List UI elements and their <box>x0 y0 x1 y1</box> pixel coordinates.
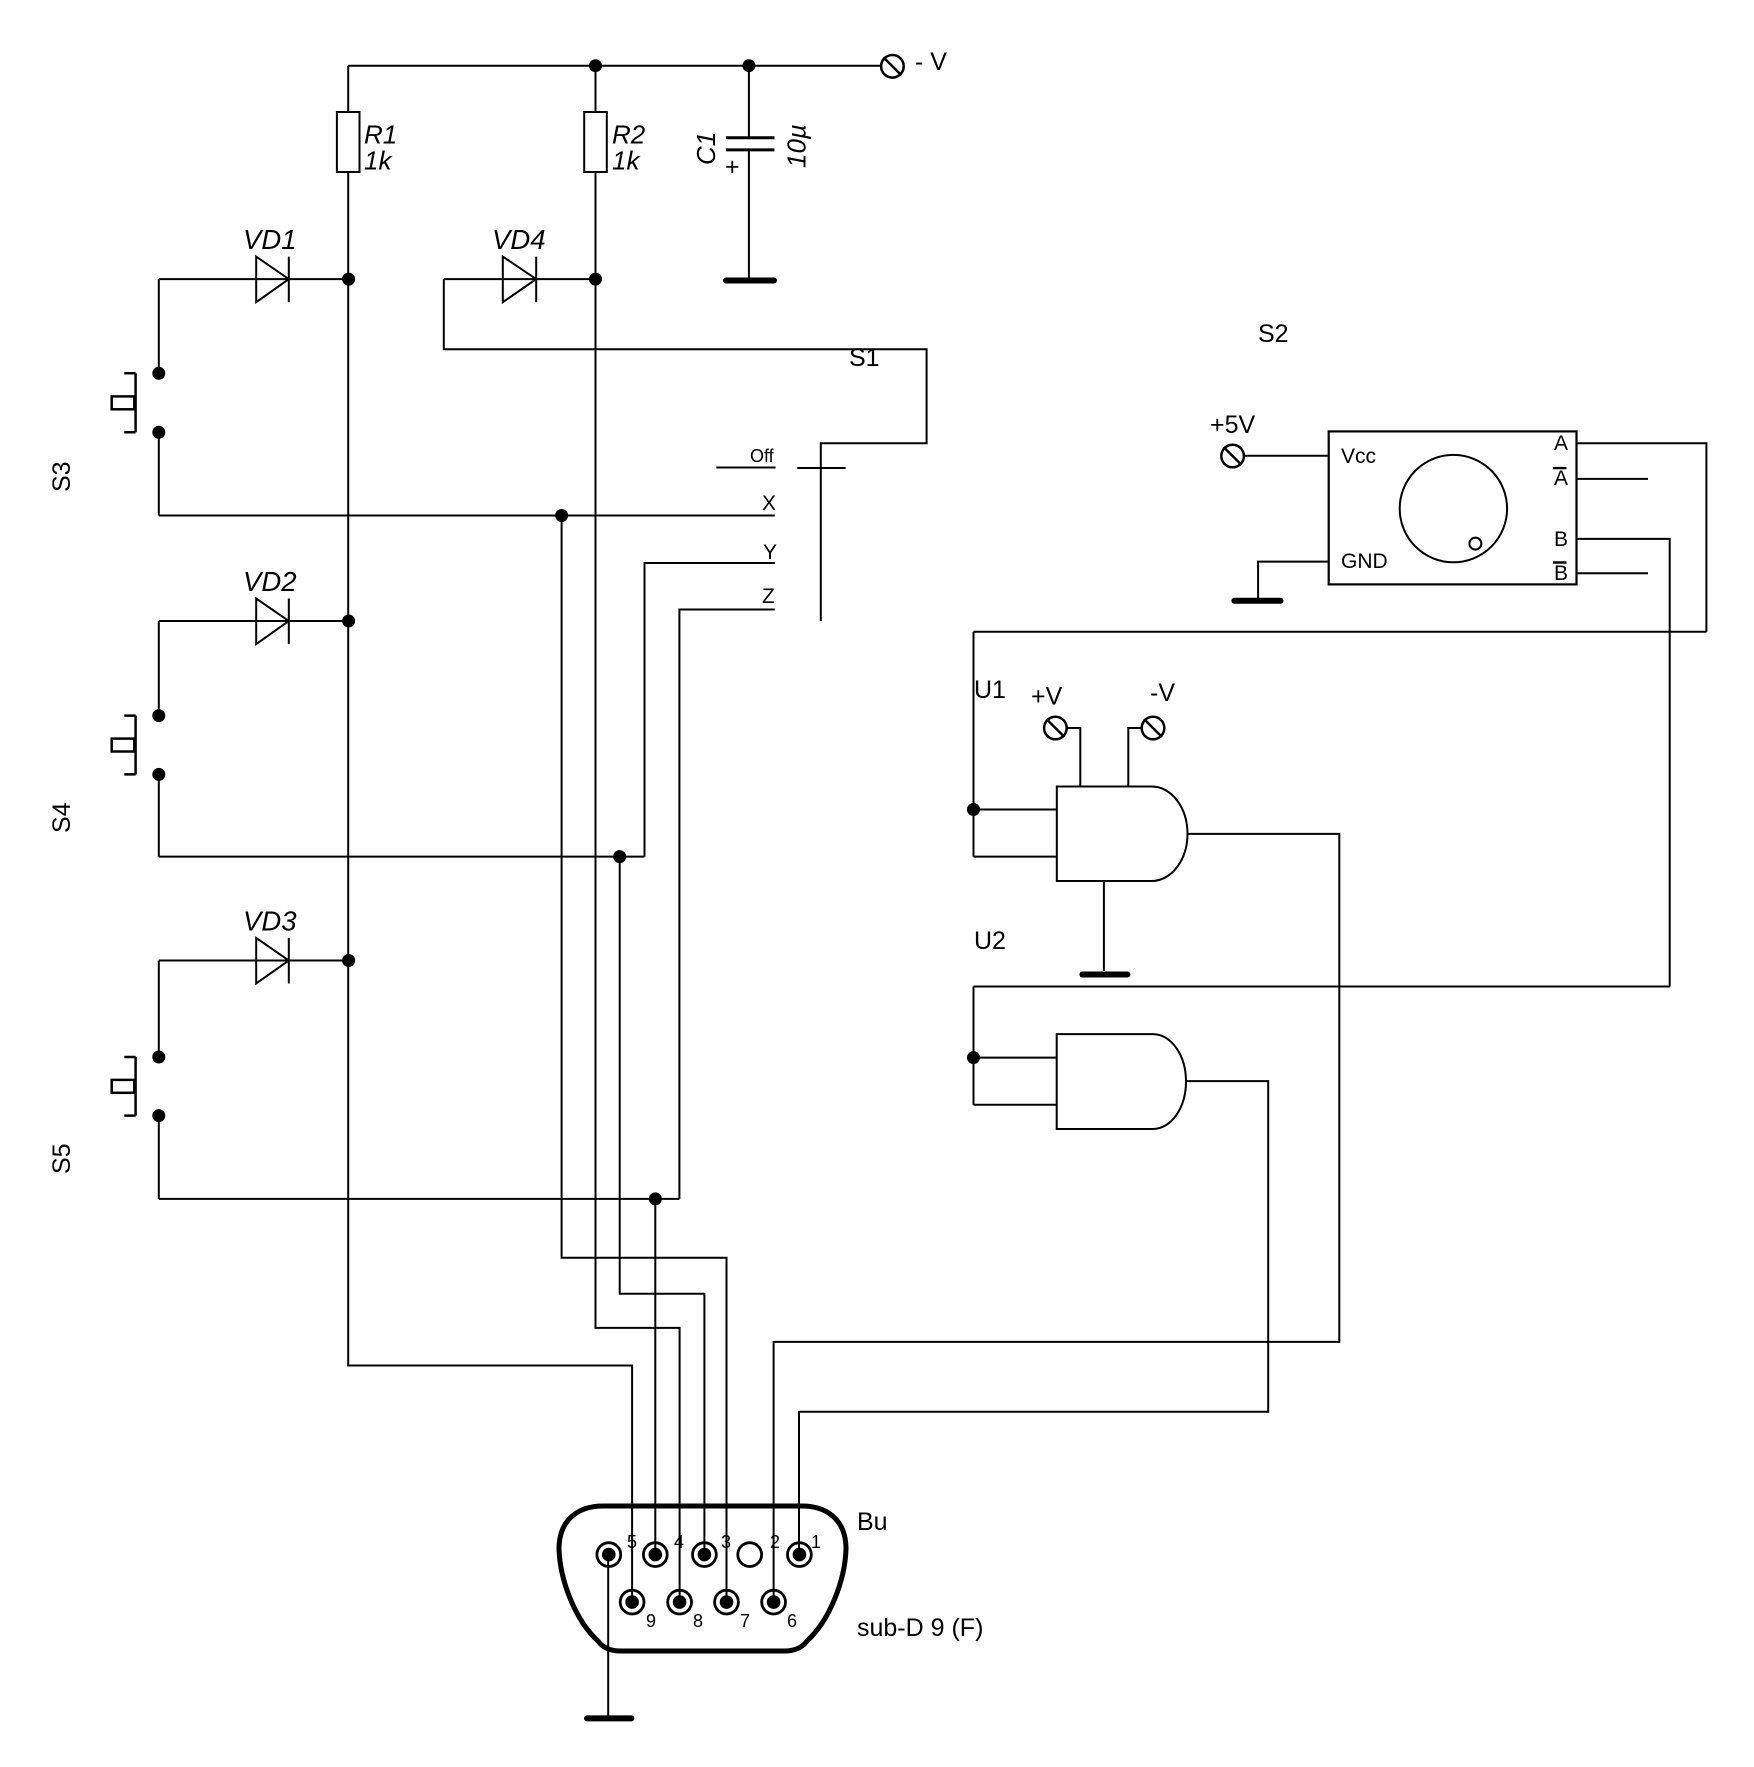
svg-text:4: 4 <box>674 1532 684 1552</box>
svg-text:S4: S4 <box>48 802 76 833</box>
svg-text:S1: S1 <box>849 344 880 372</box>
svg-text:+5V: +5V <box>1210 411 1256 439</box>
svg-text:5: 5 <box>627 1532 637 1552</box>
svg-text:1k: 1k <box>364 146 393 176</box>
svg-text:Off: Off <box>750 446 775 466</box>
svg-text:Z: Z <box>762 585 775 608</box>
svg-text:7: 7 <box>740 1611 750 1631</box>
svg-text:S5: S5 <box>48 1143 76 1174</box>
svg-text:Bu: Bu <box>857 1508 888 1536</box>
svg-text:Vcc: Vcc <box>1341 445 1376 468</box>
svg-text:10µ: 10µ <box>781 124 811 168</box>
svg-text:- V: - V <box>915 48 947 76</box>
svg-text:9: 9 <box>646 1611 656 1631</box>
svg-text:S3: S3 <box>48 461 76 492</box>
svg-text:GND: GND <box>1341 550 1388 573</box>
svg-text:+: + <box>725 153 740 181</box>
svg-text:X: X <box>762 492 776 515</box>
svg-text:2: 2 <box>770 1532 780 1552</box>
svg-text:C1: C1 <box>691 132 721 165</box>
svg-text:VD1: VD1 <box>243 224 297 255</box>
svg-text:Y: Y <box>763 541 777 564</box>
svg-text:-V: -V <box>1150 679 1175 707</box>
svg-text:U2: U2 <box>974 927 1006 955</box>
svg-text:B: B <box>1554 528 1568 551</box>
svg-text:VD2: VD2 <box>243 566 297 597</box>
svg-text:A: A <box>1554 467 1568 490</box>
svg-text:+V: +V <box>1031 683 1063 711</box>
svg-text:6: 6 <box>787 1611 797 1631</box>
svg-text:S2: S2 <box>1258 320 1289 348</box>
svg-text:VD4: VD4 <box>492 224 546 255</box>
svg-text:3: 3 <box>721 1532 731 1552</box>
svg-text:B: B <box>1554 562 1568 585</box>
svg-text:1k: 1k <box>612 146 641 176</box>
svg-text:1: 1 <box>811 1532 821 1552</box>
svg-text:8: 8 <box>693 1611 703 1631</box>
svg-text:A: A <box>1554 432 1568 455</box>
svg-text:VD3: VD3 <box>243 906 297 937</box>
svg-text:sub-D 9 (F): sub-D 9 (F) <box>857 1614 983 1642</box>
svg-text:U1: U1 <box>974 676 1006 704</box>
